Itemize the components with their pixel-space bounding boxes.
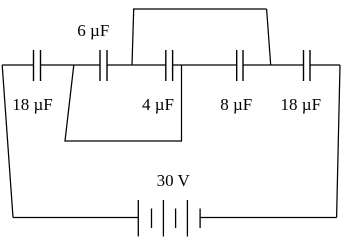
battery B1 plates: [138, 200, 200, 237]
svg-text:18 µF: 18 µF: [281, 95, 322, 114]
svg-text:4 µF: 4 µF: [142, 95, 174, 114]
wire top main segment 1: [2, 64, 33, 66]
svg-text:30 V: 30 V: [157, 171, 191, 190]
svg-text:8 µF: 8 µF: [220, 95, 252, 114]
wire inner loop right vertical: [181, 65, 183, 141]
wire bypass right slant: [267, 9, 271, 65]
svg-text:6 µF: 6 µF: [77, 21, 109, 40]
wire bypass left vertical: [132, 9, 134, 65]
capacitor C1 18uF plates: [34, 50, 41, 81]
wire inner loop left slant: [65, 65, 74, 141]
wire top main segment 4: [173, 64, 237, 66]
wire top main segment 2: [41, 64, 101, 66]
wire top main segment 3: [107, 64, 166, 66]
wire bottom left: [13, 217, 138, 219]
wire top main segment 6: [310, 64, 340, 66]
capacitor C3 4uF plates: [166, 50, 173, 81]
wire outer left edge: [2, 65, 13, 218]
svg-text:18 µF: 18 µF: [12, 95, 53, 114]
wire top main segment 5: [243, 64, 304, 66]
wire outer right edge: [337, 65, 340, 218]
wire bypass top horizontal: [133, 8, 267, 10]
wire inner loop bottom: [64, 140, 182, 142]
capacitor C2 6uF plates: [100, 50, 107, 81]
wire bottom right: [200, 217, 337, 219]
capacitor C4 8uF plates: [237, 50, 243, 81]
capacitor C5 18uF plates: [304, 50, 311, 81]
